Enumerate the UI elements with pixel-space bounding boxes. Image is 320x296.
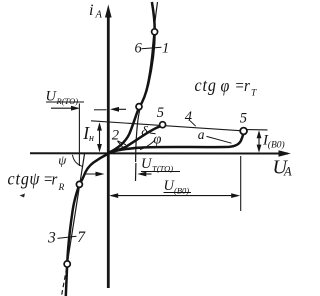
breakover point 5 (right) xyxy=(240,128,247,135)
U_R(TO) dimension left arrow xyxy=(51,106,80,111)
label ctg phi = r_T xyxy=(195,75,258,99)
svg-text:a: a xyxy=(198,127,205,142)
label I_(BO) xyxy=(262,133,285,151)
label 4 with tick xyxy=(185,109,196,126)
label a with pointer xyxy=(198,127,232,143)
svg-text:5: 5 xyxy=(157,105,164,121)
svg-text:r: r xyxy=(244,77,250,95)
svg-text:R: R xyxy=(58,183,65,193)
extension line right of breakover point (for I_(BO)) xyxy=(247,129,268,131)
thin line 6 (linear approximation of on-state) xyxy=(136,2,158,162)
U_R(TO) dimension right arrow xyxy=(94,107,126,112)
U_T(TO) extension tick (continuation of line 6 below axis) xyxy=(135,163,137,181)
thick forward blocking branch (origin to breakover point) xyxy=(108,135,243,153)
horizontal axis U_A xyxy=(30,150,291,157)
svg-text:ctg: ctg xyxy=(8,168,30,188)
angle arc psi xyxy=(73,155,83,167)
stray mark (scan artifact near U_(BO) line) xyxy=(20,194,26,198)
vertical axis i_A xyxy=(105,5,112,289)
pointer line 3-7 xyxy=(58,236,77,238)
U_T(TO) dimension left arrow xyxy=(85,172,105,177)
svg-text:7: 7 xyxy=(77,229,86,246)
svg-text:T: T xyxy=(251,89,257,99)
thin line 4 (negative resistance segment between points 5) xyxy=(91,121,240,131)
svg-text:1: 1 xyxy=(162,41,169,57)
point circle on reverse branch upper xyxy=(76,181,82,187)
svg-text:A: A xyxy=(95,10,103,21)
point circle on reverse branch lower xyxy=(64,261,70,267)
svg-text:φ: φ xyxy=(221,75,230,95)
I_(BO) dimension double arrow xyxy=(257,130,262,152)
thick reverse characteristic curve 3 xyxy=(66,154,109,296)
dashed extension of line 7 xyxy=(62,268,67,296)
svg-text:(B0): (B0) xyxy=(174,186,189,196)
point circle on line 6 upper xyxy=(152,29,158,35)
svg-text:φ: φ xyxy=(153,132,161,148)
I_H dimension double arrow xyxy=(97,122,102,152)
thick curve 1 (on-state characteristic) xyxy=(108,2,154,153)
label U_(BO) with underline xyxy=(164,178,192,196)
pointer line 6-1 xyxy=(142,47,162,49)
thin line 7 (linear approximation of reverse branch) xyxy=(67,154,84,264)
label ctg psi = r_R xyxy=(8,168,65,192)
svg-text:(B0): (B0) xyxy=(268,139,285,150)
svg-text:5: 5 xyxy=(240,111,247,127)
U_(BO) extension line xyxy=(240,156,242,211)
svg-text:R(TO): R(TO) xyxy=(56,96,79,106)
holding point 5 (left) xyxy=(160,122,166,128)
U_T(TO) dimension right arrow xyxy=(137,172,151,177)
svg-text:i: i xyxy=(89,2,93,19)
svg-text:δ: δ xyxy=(141,124,148,139)
svg-text:4: 4 xyxy=(185,109,192,125)
label delta with pointer xyxy=(141,124,155,139)
svg-text:r: r xyxy=(52,171,58,189)
svg-text:ψ: ψ xyxy=(58,153,67,168)
label U_R(TO) with underline xyxy=(46,89,85,107)
U_R(TO) extension line xyxy=(78,104,80,167)
label 2 with fork pointer xyxy=(112,127,126,147)
svg-text:ψ: ψ xyxy=(30,168,40,188)
point circle on line 6 lower xyxy=(136,104,142,110)
svg-text:ctg: ctg xyxy=(195,75,217,95)
label U_T(TO) with underline xyxy=(141,156,180,174)
svg-text:3: 3 xyxy=(47,230,56,247)
svg-text:6: 6 xyxy=(135,41,143,57)
U_(BO) dimension line with arrows xyxy=(109,193,240,198)
svg-text:A: A xyxy=(283,165,292,179)
angle arc phi xyxy=(140,141,155,150)
svg-text:н: н xyxy=(89,133,94,144)
thick curve 2/on-tail (rise from origin to holding point 5) xyxy=(108,126,161,153)
